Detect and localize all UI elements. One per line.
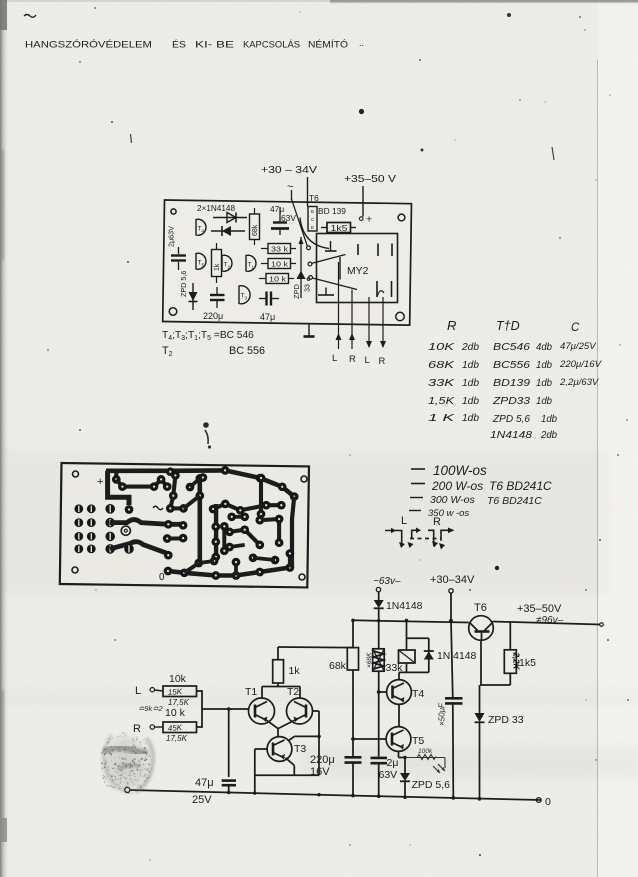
zener ZPD33 bbox=[475, 713, 485, 722]
transistor T2 bbox=[287, 698, 313, 724]
svg-text:R: R bbox=[133, 723, 141, 735]
svg-text:R: R bbox=[379, 355, 386, 366]
svg-text:1k5: 1k5 bbox=[331, 223, 348, 233]
svg-text:33: 33 bbox=[303, 284, 312, 292]
svg-text:+30 – 34V: +30 – 34V bbox=[261, 165, 317, 176]
pcb trace zigzag bbox=[230, 530, 260, 545]
svg-text:47μ/25V: 47μ/25V bbox=[560, 341, 597, 352]
svg-text:2μ: 2μ bbox=[387, 757, 399, 769]
resistor 1k5 footprint bbox=[321, 227, 327, 229]
svg-text:ZPD 33: ZPD 33 bbox=[488, 714, 524, 726]
relay MY2 outline bbox=[317, 234, 398, 303]
pcb pads row mid bbox=[170, 506, 183, 510]
svg-text:T1: T1 bbox=[245, 686, 257, 698]
diode D4 1N4148 flyback bbox=[428, 638, 430, 672]
relay contact sketch R bbox=[428, 530, 434, 546]
svg-text:T6: T6 bbox=[309, 193, 319, 203]
wire +30V lead bbox=[307, 177, 309, 207]
svg-text:1db: 1db bbox=[536, 378, 552, 389]
wire output R bbox=[351, 290, 353, 350]
relay armature 1 bbox=[308, 262, 312, 266]
board mounting hole bbox=[169, 308, 177, 316]
terminal plus bbox=[359, 217, 363, 221]
relay contact bars right bbox=[377, 244, 379, 257]
wire input join bbox=[197, 691, 203, 727]
svg-text:≏9k≏2: ≏9k≏2 bbox=[138, 704, 163, 713]
svg-text:10 k: 10 k bbox=[271, 260, 288, 269]
svg-text:ZPD: ZPD bbox=[292, 284, 301, 299]
svg-text:B: B bbox=[311, 209, 314, 214]
svg-text:T6 BD241C: T6 BD241C bbox=[489, 479, 552, 493]
pcb pads column 3 bbox=[105, 504, 115, 514]
svg-text:2db: 2db bbox=[540, 430, 557, 441]
pcb vertical 289 bbox=[288, 554, 292, 568]
wire T5 emitter bbox=[398, 751, 400, 757]
wire T6 emitter down bbox=[480, 640, 482, 685]
svg-text:10k: 10k bbox=[169, 673, 187, 685]
node terminal circle bbox=[307, 246, 311, 250]
transistor T3 bbox=[267, 737, 292, 762]
pcb trace pair bbox=[232, 515, 245, 519]
resistor 10k footprint 2 bbox=[259, 278, 266, 280]
pcb trace mid row 3 bbox=[167, 536, 183, 540]
note 300W-os bbox=[410, 497, 423, 499]
svg-text:C: C bbox=[571, 322, 580, 334]
svg-text:BD 139: BD 139 bbox=[318, 206, 346, 216]
resistor R 1k schematic bbox=[277, 683, 279, 687]
pcb mounting hole bbox=[73, 471, 79, 477]
relay contact bottom-right bbox=[376, 281, 378, 297]
svg-text:KAPCSOLÁS: KAPCSOLÁS bbox=[243, 40, 300, 50]
svg-text:..: .. bbox=[359, 38, 364, 48]
svg-text:+: + bbox=[97, 476, 103, 488]
svg-text:1db: 1db bbox=[536, 396, 552, 407]
diode D3 1N4148 bbox=[374, 600, 384, 608]
wire T3 emitter bbox=[286, 758, 295, 766]
wire T4 emitter to T5 bbox=[398, 704, 400, 726]
svg-text:45K: 45K bbox=[168, 723, 183, 733]
resistor input L bbox=[163, 686, 197, 697]
svg-text:68k: 68k bbox=[252, 224, 259, 236]
svg-text:5: 5 bbox=[202, 263, 205, 268]
node 68k top bbox=[351, 619, 355, 623]
pcb vertical x261 bbox=[259, 478, 263, 514]
wire 68k down bbox=[352, 670, 354, 756]
pcb connector pads left bbox=[74, 504, 83, 513]
svg-text:≠96v–: ≠96v– bbox=[536, 615, 564, 626]
wire down to ZPD33 bbox=[479, 685, 481, 713]
svg-text:+30–34V: +30–34V bbox=[430, 574, 475, 586]
svg-text:4: 4 bbox=[202, 229, 205, 234]
svg-text:L: L bbox=[401, 515, 407, 527]
handwritten diode arrows bbox=[433, 766, 440, 773]
pcb trace top edge bbox=[106, 468, 225, 473]
svg-text:1k5: 1k5 bbox=[519, 657, 536, 669]
wire output L2 bbox=[368, 297, 370, 347]
relay contact sketch L bbox=[385, 531, 402, 545]
svg-text:1db: 1db bbox=[536, 360, 552, 371]
resistor 10k footprint bbox=[261, 263, 268, 265]
svg-text:1N4148: 1N4148 bbox=[490, 430, 533, 441]
svg-text:17,5K: 17,5K bbox=[168, 698, 190, 707]
svg-text:+35–50 V: +35–50 V bbox=[344, 174, 396, 185]
transistor T3 footprint bbox=[239, 286, 250, 304]
svg-text:BC 556: BC 556 bbox=[229, 345, 265, 357]
svg-text:+35–50V: +35–50V bbox=[517, 603, 562, 615]
svg-text:L: L bbox=[135, 685, 141, 697]
rail junction dots bbox=[351, 794, 355, 798]
capacitor 220u footprint bbox=[216, 287, 218, 294]
zener ZPD5,6 bbox=[400, 773, 410, 781]
wire zpd to rail bbox=[404, 781, 406, 797]
pcb vertical bottom bbox=[234, 562, 238, 575]
pcb mid right net bbox=[213, 504, 281, 510]
capacitor 47u 25V bbox=[222, 779, 236, 782]
svg-text:1k: 1k bbox=[289, 665, 301, 677]
svg-text:L: L bbox=[332, 352, 337, 363]
wire arc to relay contact bbox=[300, 218, 329, 249]
svg-text:ZPD 5,6: ZPD 5,6 bbox=[412, 779, 451, 791]
random specks bbox=[94, 7, 96, 9]
svg-text:ZPD33: ZPD33 bbox=[492, 396, 531, 407]
wire slanted to relay terminal bbox=[292, 199, 308, 246]
wire output R2 bbox=[382, 297, 384, 347]
wire from ~63V terminal bbox=[378, 592, 380, 600]
wire T3 base bbox=[255, 748, 267, 750]
pcb pad row4 col4 bbox=[124, 544, 134, 554]
ink speck top right bbox=[507, 13, 511, 17]
pcb ac mark bbox=[153, 506, 163, 510]
svg-text:1: 1 bbox=[252, 265, 255, 270]
arrow up R bbox=[349, 333, 355, 340]
svg-text:10K: 10K bbox=[428, 342, 456, 353]
paper right edge line bbox=[597, 60, 599, 877]
pcb bottom run bbox=[168, 568, 290, 576]
svg-text:T4: T4 bbox=[412, 688, 424, 700]
transistor T5 bbox=[386, 727, 411, 752]
wire ac lead bbox=[291, 190, 293, 200]
svg-text:0: 0 bbox=[159, 572, 165, 583]
svg-text:47μ: 47μ bbox=[195, 777, 214, 789]
bottom-left corner mark bbox=[0, 818, 7, 842]
svg-text:1N4148: 1N4148 bbox=[386, 601, 423, 612]
resistor input R bbox=[163, 722, 197, 733]
capacitor 2u 63V bbox=[371, 757, 388, 760]
svg-text:ZPD 5,6: ZPD 5,6 bbox=[179, 271, 188, 297]
pcb long vertical left-center bbox=[198, 478, 203, 563]
svg-text:MY2: MY2 bbox=[347, 266, 369, 277]
svg-text:2×1N4148: 2×1N4148 bbox=[197, 204, 235, 213]
svg-text:BD139: BD139 bbox=[493, 378, 531, 389]
svg-text:T5: T5 bbox=[412, 735, 424, 747]
svg-text:10 k: 10 k bbox=[269, 275, 286, 284]
note 100W-os bbox=[411, 468, 425, 470]
svg-text:~: ~ bbox=[287, 181, 293, 193]
pcb wavy trace 2 bbox=[110, 542, 168, 554]
pcb upper mid pads bbox=[186, 483, 195, 492]
transistor T1 bbox=[249, 698, 275, 724]
svg-text:+: + bbox=[366, 214, 372, 226]
smudge ink blob bbox=[98, 732, 154, 796]
ink blot bbox=[203, 422, 209, 428]
svg-text:×50μF: ×50μF bbox=[438, 702, 447, 726]
svg-text:1k: 1k bbox=[214, 263, 221, 271]
ground symbol bbox=[308, 323, 310, 336]
svg-text:10 k: 10 k bbox=[165, 707, 186, 719]
svg-text:2db: 2db bbox=[461, 342, 479, 353]
pcb pads misc bbox=[210, 557, 219, 566]
resistor 1k footprint bbox=[212, 250, 222, 277]
svg-text:1db: 1db bbox=[462, 413, 479, 424]
svg-text:17,5K: 17,5K bbox=[166, 734, 188, 743]
pcb wavy trace 1 bbox=[110, 520, 183, 525]
svg-text:220μ: 220μ bbox=[203, 311, 223, 321]
board mounting hole bbox=[398, 214, 405, 221]
ink speck bbox=[552, 147, 554, 160]
transistor T4 bbox=[387, 680, 412, 705]
wire +30V vertical bbox=[450, 593, 452, 621]
wire relay loop top bbox=[407, 637, 429, 639]
svg-text:300 W-os: 300 W-os bbox=[430, 494, 475, 506]
pcb trace corner gamma bbox=[108, 471, 129, 505]
svg-text:~63v–: ~63v– bbox=[373, 576, 401, 587]
svg-text:T3: T3 bbox=[294, 743, 306, 755]
svg-text:BC546: BC546 bbox=[493, 342, 531, 353]
node rail zpd33 bbox=[478, 797, 482, 801]
pcb mounting hole bbox=[72, 567, 78, 573]
arrow down L2 bbox=[366, 341, 372, 348]
resistor R 33k crossed out bbox=[373, 649, 385, 671]
svg-text:T†D: T†D bbox=[496, 319, 520, 333]
svg-text:200 W-os: 200 W-os bbox=[431, 479, 483, 493]
ink speck bbox=[421, 149, 424, 152]
pcb eyelet pad bbox=[121, 526, 130, 535]
svg-text:4db: 4db bbox=[536, 342, 552, 353]
bottom rail bbox=[130, 790, 542, 800]
diode D2 1N4148 bbox=[211, 230, 245, 232]
transistor T6 bbox=[469, 616, 494, 641]
svg-text:ZPD 5,6: ZPD 5,6 bbox=[492, 414, 530, 425]
node +30V on base wire bbox=[449, 619, 453, 623]
pcb center-right long vertical bbox=[214, 504, 218, 557]
relay contact sketch dashes bbox=[410, 538, 441, 540]
wire +35V lead bbox=[362, 186, 364, 217]
svg-text:ÉS: ÉS bbox=[172, 40, 186, 50]
wire emitter to 1k5 bbox=[480, 684, 510, 686]
ink speck bbox=[495, 566, 499, 570]
relay internal wire bbox=[339, 257, 341, 280]
svg-text:×68K: ×68K bbox=[366, 652, 373, 668]
node diode line bbox=[377, 619, 381, 623]
wire emitters join bbox=[267, 721, 278, 729]
transistor T4 footprint bbox=[196, 219, 206, 235]
wire relay loop bottom bbox=[406, 663, 408, 672]
resistor 33k footprint bbox=[261, 248, 268, 250]
svg-text:1db: 1db bbox=[462, 396, 479, 407]
diode D1 1N4148 bbox=[213, 217, 247, 219]
svg-text:220μ: 220μ bbox=[310, 754, 335, 766]
rail terminal left bbox=[125, 787, 130, 792]
svg-text:L: L bbox=[365, 354, 370, 365]
pcb trace top cluster bbox=[114, 471, 118, 480]
svg-text:1db: 1db bbox=[462, 360, 479, 371]
handwritten 100k resistor bbox=[405, 757, 445, 759]
wire T4 base bbox=[379, 691, 387, 693]
component board outline bbox=[163, 200, 412, 325]
relay coil bbox=[406, 621, 408, 651]
ink speck bbox=[131, 134, 132, 143]
svg-text:33K: 33K bbox=[428, 378, 456, 389]
pcb mounting hole bbox=[301, 476, 307, 482]
svg-text:T6: T6 bbox=[474, 602, 487, 614]
svg-text:T2: T2 bbox=[287, 686, 299, 698]
svg-text:NÉMÍTÓ: NÉMÍTÓ bbox=[308, 40, 348, 50]
svg-text:HANGSZÓRÓVÉDELEM: HANGSZÓRÓVÉDELEM bbox=[25, 40, 152, 50]
scan edge left bbox=[0, 0, 8, 877]
transistor T2 footprint bbox=[222, 255, 232, 271]
wire 1k top to 68k bbox=[278, 646, 353, 649]
pcb dirt specks bbox=[97, 499, 99, 501]
main horizontal wire to T6 base bbox=[353, 620, 469, 622]
svg-text:100k: 100k bbox=[418, 748, 433, 755]
svg-text:R: R bbox=[349, 353, 356, 364]
capacitor 2u63V bbox=[178, 247, 180, 254]
svg-text:68k: 68k bbox=[329, 660, 347, 672]
wire diode to 33k bbox=[378, 608, 380, 649]
svg-text:R: R bbox=[447, 318, 456, 333]
resistor 68k footprint bbox=[250, 214, 260, 240]
relay contact bottom-left bbox=[325, 288, 327, 296]
pcb trace angle bbox=[260, 519, 279, 543]
handwriting squiggle top-left bbox=[24, 15, 36, 18]
pcb trace top center bbox=[170, 472, 175, 509]
wire output L bbox=[338, 262, 340, 349]
svg-text:3: 3 bbox=[245, 296, 248, 301]
svg-text:1 K: 1 K bbox=[428, 413, 456, 424]
wire 33k down to 2u cap bbox=[378, 671, 380, 756]
wire T5 base bbox=[353, 738, 386, 740]
arrow up L bbox=[336, 333, 342, 340]
svg-text:100W-os: 100W-os bbox=[433, 463, 487, 478]
relay armature 2 bbox=[309, 276, 313, 280]
svg-text:63V: 63V bbox=[379, 769, 398, 781]
transistor T1 footprint bbox=[246, 255, 256, 271]
pcb mounting hole bbox=[299, 574, 305, 580]
board mounting hole bbox=[171, 209, 176, 214]
arrow down R2 bbox=[380, 341, 386, 348]
svg-text:16V: 16V bbox=[310, 766, 330, 778]
pcb trace pair 2 bbox=[230, 545, 245, 547]
wire loop to T4 bbox=[398, 672, 400, 679]
wire T3 collector bbox=[289, 736, 295, 740]
pcb trace bottom left link bbox=[184, 563, 199, 573]
resistor R 1k5 bbox=[509, 622, 511, 650]
svg-text:1N 4148: 1N 4148 bbox=[437, 651, 477, 662]
rail terminal right 0 bbox=[536, 798, 541, 803]
svg-text:33 k: 33 k bbox=[271, 245, 288, 254]
svg-text:0: 0 bbox=[545, 796, 551, 808]
board mounting hole bbox=[396, 312, 404, 320]
svg-text:1,5K: 1,5K bbox=[428, 396, 456, 407]
svg-text:E: E bbox=[311, 225, 314, 230]
svg-text:BC556: BC556 bbox=[493, 360, 531, 371]
wire T6 collector to +35-50V bbox=[493, 622, 601, 625]
wire bottom join bbox=[255, 774, 319, 776]
svg-text:T6 BD241C: T6 BD241C bbox=[487, 495, 542, 507]
capacitor on +30V line bbox=[445, 697, 463, 700]
transistor T5 footprint bbox=[196, 253, 206, 269]
capacitor 220u 16V bbox=[345, 756, 362, 759]
ink speck bbox=[359, 109, 364, 114]
pcb board outline bbox=[60, 463, 309, 587]
svg-text:220μ/16V: 220μ/16V bbox=[559, 359, 603, 370]
resistor R 68k schematic bbox=[352, 620, 354, 647]
svg-text:2,2μ/63V: 2,2μ/63V bbox=[559, 377, 600, 388]
svg-text:1db: 1db bbox=[541, 414, 557, 425]
relay contact top-left bbox=[330, 241, 332, 251]
capacitor 47u footprint bottom bbox=[259, 298, 266, 300]
pcb vertical right mid bbox=[222, 526, 226, 551]
scan edge top bbox=[0, 0, 330, 2]
wire ZPD33 to rail bbox=[479, 722, 481, 799]
svg-text:68K: 68K bbox=[428, 360, 456, 371]
wire node to 47u cap bbox=[228, 709, 230, 777]
note 350W-os bbox=[409, 510, 421, 512]
svg-text:R: R bbox=[433, 516, 441, 528]
note 200W-os bbox=[411, 483, 425, 485]
wire +30V line to rail bbox=[452, 704, 455, 798]
svg-text:1db: 1db bbox=[462, 378, 479, 389]
svg-text:KI- BE: KI- BE bbox=[195, 40, 234, 50]
wire T2 base east bbox=[313, 710, 320, 712]
svg-text:47μ: 47μ bbox=[260, 312, 275, 322]
relay fixed contact center bbox=[357, 244, 359, 255]
pcb top right diagonal bbox=[225, 470, 294, 496]
svg-text:25V: 25V bbox=[192, 794, 212, 806]
zener diode ZPD5,6 bbox=[192, 283, 194, 310]
wire T1 T2 collectors bbox=[261, 687, 263, 698]
svg-text:2μ63V: 2μ63V bbox=[167, 226, 176, 247]
pcb right loop bbox=[292, 497, 294, 568]
svg-text:15K: 15K bbox=[168, 687, 183, 697]
svg-text:2: 2 bbox=[228, 265, 231, 270]
